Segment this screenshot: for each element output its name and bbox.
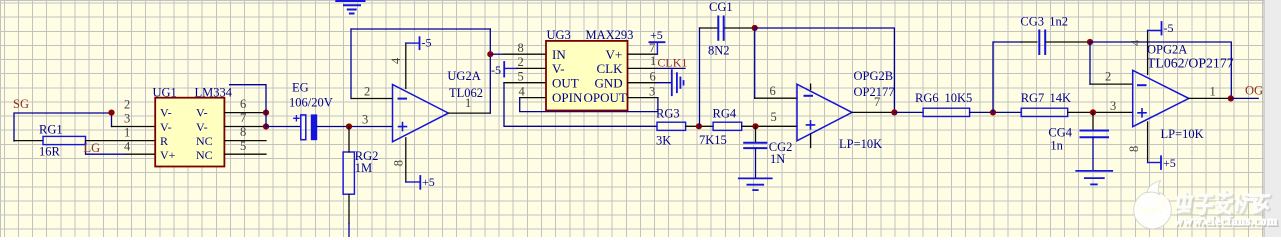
svg-text:1: 1 — [124, 126, 130, 140]
wire rail top horizontal — [351, 28, 490, 30]
svg-text:2: 2 — [124, 98, 130, 112]
svg-text:LP=10K: LP=10K — [839, 137, 882, 151]
wire CG4 bottom lead — [1092, 137, 1094, 171]
junction dot CG4 tap — [1090, 109, 1096, 115]
wire OPG2B output stub — [852, 111, 894, 113]
svg-text:OG: OG — [1245, 84, 1263, 98]
svg-text:2: 2 — [1105, 70, 1111, 84]
watermark brand glyphs shadow — [1178, 193, 1270, 215]
svg-text:2: 2 — [364, 85, 370, 99]
svg-text:OPG2B: OPG2B — [854, 69, 894, 83]
wire pin5 stub — [224, 153, 266, 155]
wire CG1 branch riser — [699, 28, 701, 126]
minus symbol OPG2A — [1138, 84, 1146, 86]
svg-text:TL062/OP2177: TL062/OP2177 — [1147, 56, 1234, 71]
svg-text:CG3: CG3 — [1020, 15, 1044, 29]
wire CG2 bottom lead — [755, 148, 757, 178]
resistor RG3 — [657, 122, 686, 130]
resistor RG2 (vertical) — [343, 152, 354, 194]
junction dot pin7 — [263, 123, 269, 129]
junction dot CG1/pin6 riser — [752, 25, 758, 31]
wire IN (pin8 UG3) — [490, 53, 504, 55]
power port -5 (OPG2A) — [1148, 29, 1162, 31]
svg-text:8N2: 8N2 — [708, 44, 730, 58]
wire pin2 stub OPG2A — [1090, 83, 1133, 85]
wire OUT down to RG3 row — [504, 83, 657, 127]
svg-text:1: 1 — [650, 54, 656, 68]
svg-text:RG4: RG4 — [713, 106, 737, 120]
svg-text:4: 4 — [124, 140, 131, 154]
svg-text:www.elecfans.com: www.elecfans.com — [1174, 214, 1278, 228]
svg-text:NC: NC — [196, 134, 213, 148]
wire CG1 left lead — [700, 27, 717, 29]
power port +5 (OPG2A) — [1148, 162, 1161, 164]
svg-text:3: 3 — [1110, 99, 1116, 113]
svg-text:1n: 1n — [1050, 139, 1063, 153]
capacitor EG right plate (filled) — [311, 115, 316, 140]
svg-text:4: 4 — [519, 84, 526, 98]
svg-text:1: 1 — [1210, 85, 1216, 99]
op-amp OPG2A triangle — [1133, 70, 1189, 126]
svg-text:V-: V- — [196, 106, 208, 120]
resistor RG1 — [43, 136, 86, 144]
wire output to OG — [1231, 97, 1258, 99]
wire pin7 stub — [224, 126, 266, 128]
svg-text:8: 8 — [391, 160, 405, 166]
wire output to RG6 — [894, 111, 923, 113]
wire GND to ground — [656, 82, 671, 84]
svg-text:14K: 14K — [1050, 91, 1072, 105]
wire pin6 stub — [224, 112, 266, 114]
watermark brand glyphs — [1177, 192, 1269, 214]
svg-text:UG3: UG3 — [547, 28, 571, 42]
wire RG2 top lead — [348, 127, 350, 153]
minus symbol UG2A — [399, 98, 407, 100]
wire LG branch down to pin 4 — [86, 142, 127, 154]
svg-text:3: 3 — [124, 112, 130, 126]
wire CG4 top lead — [1092, 112, 1094, 130]
svg-text:3: 3 — [362, 113, 368, 127]
wire OPIN-OPOUT feedback loop — [520, 98, 658, 112]
power pin stump top OPG2B — [810, 84, 812, 89]
svg-text:NC: NC — [196, 148, 213, 162]
svg-text:RG7: RG7 — [1021, 91, 1045, 105]
watermark logo circle — [1134, 181, 1172, 229]
op-amp OPG2B triangle — [797, 84, 852, 141]
svg-text:V-: V- — [160, 120, 172, 134]
svg-text:+5: +5 — [422, 175, 435, 189]
IC UG1 LM334 body — [155, 98, 224, 167]
wire junction vertical pin2-pin3 — [111, 113, 113, 127]
wire SG horizontal to UG1 pin2 — [14, 113, 112, 141]
svg-text:8: 8 — [518, 41, 524, 55]
wire RG3 to RG4 — [686, 125, 714, 127]
svg-text:16R: 16R — [39, 145, 61, 159]
junction dot at UG1 pin 2 — [108, 110, 114, 116]
plus symbol UG2A — [399, 123, 407, 131]
svg-text:6: 6 — [240, 97, 246, 111]
wire ground rail to UG2A pin2 riser — [350, 29, 352, 99]
pin 4 stub (V-) OPG2A — [1147, 30, 1149, 74]
wire feedback top rail to output — [755, 28, 895, 112]
wire RG2 to bottom edge — [348, 223, 350, 237]
capacitor CG2 — [744, 143, 766, 148]
wire CLK1 net stub — [657, 67, 685, 69]
wire GND pin6 stub — [628, 82, 657, 84]
junction dot rail/IN — [487, 51, 493, 57]
svg-text:V-: V- — [552, 61, 565, 76]
wire OUT pin5 stub UG3 — [504, 82, 546, 84]
svg-text:1n2: 1n2 — [1049, 15, 1068, 29]
wire OPIN pin4 stub UG3 — [520, 97, 546, 99]
svg-text:V-: V- — [196, 120, 208, 134]
svg-text:V+: V+ — [606, 47, 623, 62]
wire pin3 stub — [112, 126, 156, 128]
svg-text:GND: GND — [595, 75, 623, 90]
junction dot EG/RG2/pin3 — [346, 123, 352, 129]
svg-text:1M: 1M — [355, 161, 372, 175]
wire pin2 riser OPG2A — [1089, 42, 1091, 84]
ground symbol (right-pointing, UG3 GND) — [672, 70, 684, 95]
svg-text:4: 4 — [389, 57, 403, 64]
wire riser down to OPG2B pin6 — [754, 28, 756, 98]
svg-text:OPG2A: OPG2A — [1147, 43, 1187, 57]
wire CLK pin1 stub — [628, 67, 658, 69]
svg-text:-5: -5 — [491, 63, 501, 77]
wire V+ pin7 stub — [628, 53, 658, 55]
sheet right margin band — [1264, 0, 1281, 237]
svg-text:1N: 1N — [770, 152, 785, 166]
wire pin6 stub OPG2B — [755, 97, 797, 99]
wire RG1 right to pin 1 — [86, 140, 156, 142]
capacitor CG3 — [1039, 31, 1045, 55]
svg-text:LP=10K: LP=10K — [1161, 127, 1204, 141]
wire CG2 top lead — [755, 126, 757, 142]
svg-text:5: 5 — [771, 110, 777, 124]
wire OPOUT pin3 stub — [628, 97, 658, 99]
capacitor CG4 — [1081, 131, 1109, 138]
svg-text:OPIN: OPIN — [552, 90, 583, 105]
power port -5 (UG2A) — [406, 42, 420, 44]
svg-text:V+: V+ — [160, 148, 176, 162]
wire pin2 stub UG2A — [351, 98, 392, 100]
wire CG3 left lead — [1021, 41, 1037, 43]
svg-text:V-: V- — [160, 106, 172, 120]
junction dot RG3/RG4/CG1 — [696, 123, 702, 129]
svg-text:UG2A: UG2A — [447, 69, 480, 83]
svg-text:CG4: CG4 — [1048, 126, 1072, 140]
resistor RG4 — [713, 122, 742, 130]
svg-text:RG1: RG1 — [39, 123, 63, 137]
svg-text:RG3: RG3 — [656, 106, 680, 120]
resistor RG6 — [923, 108, 970, 116]
ground symbol (top, above rail) — [336, 1, 364, 14]
svg-text:6: 6 — [650, 70, 656, 84]
wire V- pin2 stub UG3 — [517, 67, 546, 69]
junction dot OPG2B output — [891, 109, 897, 115]
wire CG3 riser — [993, 42, 1021, 112]
wire RG2 bottom lead — [348, 194, 350, 223]
svg-text:CLK: CLK — [597, 61, 624, 76]
wire pin8 stub — [224, 140, 266, 142]
wire pin7 to EG cap — [266, 126, 301, 128]
ground symbol (below CG4) — [1076, 171, 1112, 185]
svg-text:8: 8 — [1127, 146, 1141, 152]
wire CG3 right lead — [1046, 41, 1090, 43]
pin 8 stub (V+) OPG2A — [1147, 122, 1149, 163]
IC UG3 MAX293 body — [546, 41, 628, 111]
minus symbol OPG2B — [805, 95, 813, 97]
svg-text:CLK1: CLK1 — [657, 55, 687, 69]
svg-text:OUT: OUT — [552, 75, 579, 90]
svg-text:+5: +5 — [1163, 156, 1176, 170]
capacitor CG1 — [718, 17, 723, 40]
power port +5 (UG3) — [656, 42, 658, 54]
svg-text:6: 6 — [770, 84, 776, 98]
svg-text:4: 4 — [1129, 39, 1143, 46]
svg-text:CG1: CG1 — [709, 0, 733, 14]
wire feedback rail to output OPG2A — [1090, 42, 1231, 98]
junction dot OPG2A output — [1228, 95, 1234, 101]
svg-text:UG1: UG1 — [153, 86, 177, 100]
wire EG to junction — [317, 126, 393, 128]
junction dot CG2 tap — [752, 123, 758, 129]
wire pin4 stub — [126, 153, 155, 155]
svg-text:LG: LG — [84, 141, 101, 155]
resistor RG7 — [1021, 108, 1067, 116]
svg-text:7K15: 7K15 — [699, 133, 727, 147]
junction dot CG3/pin2 — [1087, 39, 1093, 45]
junction dot RG6/RG7/CG3 — [990, 109, 996, 115]
svg-text:5: 5 — [518, 70, 524, 84]
svg-text:R: R — [160, 134, 168, 148]
power port +5 (UG2A) — [406, 181, 421, 183]
junction dot pin6 — [263, 110, 269, 116]
svg-text:RG6: RG6 — [915, 91, 939, 105]
wire UG1 right riser and top bend — [230, 85, 266, 127]
pin 8 stub (V+) — [405, 138, 407, 182]
power pin stump bottom OPG2B — [810, 134, 812, 148]
svg-text:LM334: LM334 — [195, 86, 233, 100]
svg-text:3K: 3K — [656, 133, 671, 147]
svg-text:OPOUT: OPOUT — [584, 90, 627, 105]
svg-text:3: 3 — [649, 84, 655, 98]
svg-text:MAX293: MAX293 — [586, 28, 634, 42]
capacitor EG plus sign — [294, 116, 299, 121]
wire CG1 right lead — [725, 27, 755, 29]
capacitor EG left plate (outline) — [301, 115, 306, 140]
ground symbol (below CG2) — [739, 178, 772, 190]
wire rail right vertical down to output — [489, 29, 491, 113]
svg-text:EG: EG — [292, 81, 309, 95]
op-amp UG2A triangle — [393, 85, 449, 142]
svg-text:IN: IN — [552, 47, 566, 62]
svg-text:2: 2 — [518, 55, 524, 69]
svg-text:10K5: 10K5 — [945, 91, 973, 105]
svg-text:1: 1 — [465, 96, 471, 110]
wire UG2A output stub — [448, 112, 490, 114]
plus symbol OPG2A — [1138, 109, 1146, 117]
wire OPG2A output stub — [1189, 97, 1231, 99]
wire RG4 to pin5 OPG2B — [742, 125, 797, 127]
plus symbol OPG2B — [807, 121, 815, 129]
wire to RG1 left — [14, 140, 43, 142]
svg-text:106/20V: 106/20V — [289, 96, 333, 110]
wire RG6 to RG7 — [970, 111, 1022, 113]
svg-text:SG: SG — [13, 97, 29, 111]
pin 4 stub (V-) — [405, 43, 407, 88]
svg-text:+5: +5 — [650, 28, 663, 42]
svg-text:7: 7 — [874, 95, 880, 109]
svg-text:-5: -5 — [422, 36, 432, 50]
wire RG7 to pin3 OPG2A — [1068, 111, 1133, 113]
svg-text:-5: -5 — [1164, 21, 1174, 35]
